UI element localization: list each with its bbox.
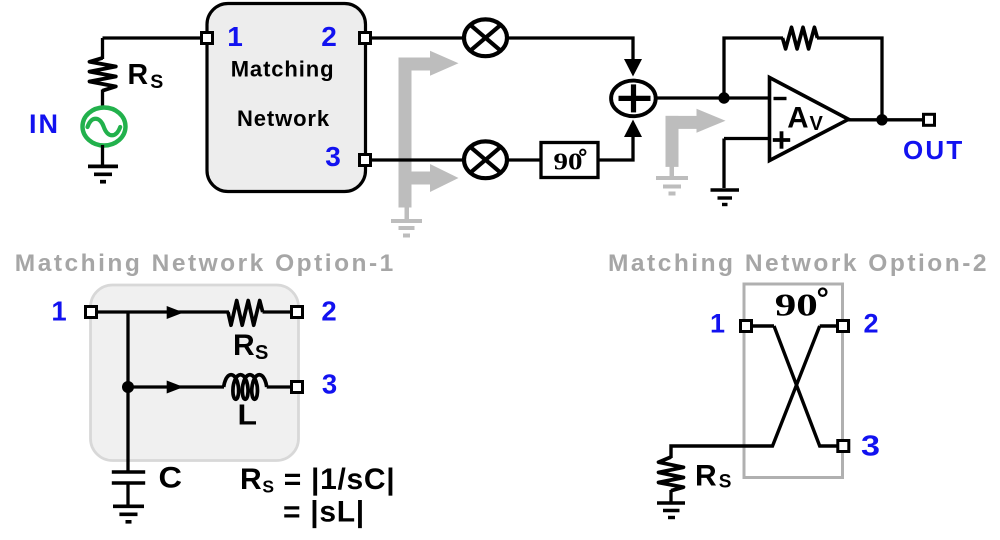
flow arrow 1: [167, 306, 184, 319]
wire cross 2-bottom: [671, 326, 820, 458]
svg-text:3: 3: [325, 141, 341, 172]
gray ground (right assembly): [670, 166, 675, 177]
port 3 option2: [838, 441, 849, 452]
port 1 option1: [86, 307, 97, 318]
option1 network box: [91, 285, 299, 461]
svg-text:1: 1: [710, 309, 725, 339]
arrowhead into summer bottom: [624, 120, 642, 138]
op-amp plus pin: [773, 138, 790, 142]
svg-text:IN: IN: [29, 109, 60, 139]
svg-text:1: 1: [227, 21, 243, 52]
inductor L: [224, 375, 267, 400]
op-amp minus pin: [774, 97, 787, 100]
wire IN top: [103, 36, 208, 39]
svg-text:S: S: [719, 472, 732, 493]
port 1: [202, 33, 213, 44]
resistor Rs (option1): [228, 301, 263, 326]
gray arrow lower: [399, 172, 431, 185]
port 2 option2: [838, 321, 849, 332]
svg-text:2: 2: [863, 309, 878, 339]
svg-text:Matching Network Option-1: Matching Network Option-1: [15, 250, 396, 277]
node junction option1: [122, 381, 134, 393]
op-amp U1: [770, 78, 849, 161]
wire op-amp output: [848, 118, 923, 121]
wire cross 1-3: [774, 326, 838, 446]
ground (option2): [657, 503, 685, 518]
wire capacitor to ground: [126, 485, 129, 506]
svg-text:S: S: [255, 342, 268, 364]
node junction (inverting input): [718, 92, 729, 103]
wire junction to inductor: [128, 385, 224, 388]
svg-text:90: 90: [554, 149, 583, 175]
wire port2 stub: [820, 324, 838, 327]
node output junction: [876, 114, 887, 125]
wire shunt vertical: [126, 312, 129, 471]
resistor Rs (option2): [659, 457, 684, 491]
svg-text:Network: Network: [237, 106, 330, 131]
capacitor C: [112, 472, 145, 483]
option2 network box: [744, 284, 843, 478]
svg-text:R: R: [128, 59, 149, 91]
gray ground (left assembly): [405, 207, 410, 221]
svg-text:2: 2: [321, 21, 337, 52]
ground (source): [88, 166, 118, 181]
wire resistor to source: [101, 90, 104, 111]
wire summer to op-amp inverting input: [655, 96, 769, 99]
wire resistor to ground option2: [669, 490, 672, 503]
svg-text:R: R: [695, 460, 717, 493]
svg-text:C: C: [159, 461, 183, 494]
LO port arrow (grayed) right assembly: [656, 109, 726, 196]
port 2 option1: [292, 307, 303, 318]
ground (capacitor): [113, 506, 144, 522]
port OUT square: [924, 114, 935, 125]
wire resistor top lead: [101, 38, 104, 59]
90 degree phase shift block: [541, 143, 598, 178]
wire resistor to port2: [263, 310, 292, 313]
svg-text:R: R: [233, 329, 255, 362]
source VIN (sine source): [83, 108, 126, 146]
wire inductor to port3: [267, 385, 291, 388]
wire mixer2 to 90deg block: [506, 158, 541, 161]
wire non-inverting to ground: [722, 139, 725, 189]
wire source to ground: [101, 145, 104, 166]
wire port1 to resistor: [97, 310, 229, 313]
arrowhead into summer top: [624, 59, 642, 77]
wire port2 to mixer1: [365, 36, 464, 39]
svg-text:OUT: OUT: [903, 135, 964, 165]
svg-text:Matching: Matching: [231, 57, 335, 82]
resistor Rf (feedback): [783, 27, 818, 49]
flow arrow 2: [167, 381, 184, 394]
svg-text:S: S: [150, 71, 163, 93]
LO port arrow (grayed) left assembly stem: [391, 51, 459, 238]
resistor Rs (source): [90, 58, 116, 91]
port 1 option2: [741, 321, 752, 332]
mixer M2: [464, 141, 507, 178]
svg-text:V: V: [810, 113, 824, 135]
svg-text:3: 3: [861, 430, 880, 462]
wire 90deg block to summer: [598, 136, 633, 160]
svg-text:L: L: [238, 400, 258, 432]
wire feedback left leg: [724, 38, 783, 98]
wire mixer1 to summer: [506, 38, 633, 60]
matching network box: [207, 4, 366, 192]
gray arrow upper: [399, 58, 431, 71]
svg-text:90: 90: [775, 287, 818, 323]
mixer M1: [464, 19, 507, 56]
svg-text:3: 3: [322, 369, 337, 400]
port 3 option1: [292, 382, 303, 393]
wire feedback right leg: [817, 38, 882, 120]
ground (op-amp non-inverting): [711, 190, 740, 205]
wire port3 to mixer2: [365, 158, 464, 161]
wire non-inverting input: [724, 137, 769, 140]
svg-text:Matching Network Option-2: Matching Network Option-2: [608, 250, 989, 277]
svg-text:= |sL|: = |sL|: [283, 495, 365, 528]
port 3: [360, 155, 371, 166]
port 2: [360, 33, 371, 44]
svg-text:A: A: [787, 101, 808, 134]
svg-text:1: 1: [51, 296, 66, 327]
svg-text:2: 2: [321, 296, 336, 327]
wire port1 stub: [752, 324, 774, 327]
summer S1: [611, 81, 656, 117]
